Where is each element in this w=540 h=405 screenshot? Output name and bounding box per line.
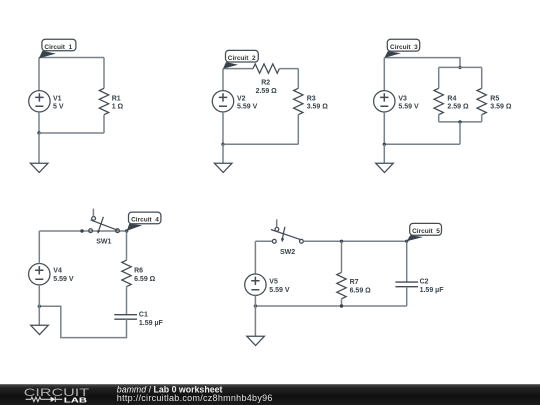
wire right circuit 4 bbox=[126, 231, 128, 260]
wire left circuit 1 bbox=[38, 58, 40, 91]
svg-text:R6: R6 bbox=[134, 268, 143, 275]
node label Circuit_1 bbox=[39, 39, 76, 58]
wire below V4 bbox=[38, 285, 40, 306]
node junction circuit 2 bbox=[221, 143, 224, 146]
svg-text:Circuit_5: Circuit_5 bbox=[412, 228, 440, 235]
svg-text:5.59 V: 5.59 V bbox=[269, 287, 290, 294]
resistor R1 bbox=[99, 58, 123, 134]
wire bottom circuit 1 bbox=[39, 132, 104, 134]
wire top-right circuit 5 bbox=[304, 240, 407, 242]
wire left circuit 5 bbox=[254, 241, 256, 274]
node junction R7 bottom bbox=[340, 304, 343, 307]
svg-text:1 Ω: 1 Ω bbox=[112, 104, 124, 111]
resistor R7 bbox=[337, 241, 371, 306]
svg-text:3.59 Ω: 3.59 Ω bbox=[307, 104, 329, 111]
wire top circuit 3 bbox=[384, 58, 460, 68]
wire below V5 bbox=[254, 295, 256, 306]
ground circuit 2 bbox=[214, 144, 232, 172]
wire below V1 bbox=[38, 112, 40, 133]
switch SW1 bbox=[89, 209, 120, 246]
node label Circuit_4 bbox=[127, 212, 161, 231]
node junction circuit 3 top bbox=[458, 66, 461, 69]
node label Circuit_3 bbox=[384, 39, 419, 58]
voltage source V3 bbox=[374, 91, 419, 112]
wire below V3 bbox=[383, 112, 385, 144]
svg-text:R5: R5 bbox=[490, 95, 499, 102]
resistor R6 bbox=[122, 260, 156, 314]
wire top circuit 1 bbox=[39, 57, 104, 59]
svg-text:V3: V3 bbox=[398, 95, 407, 102]
svg-text:V5: V5 bbox=[269, 279, 278, 286]
ground circuit 5 bbox=[247, 306, 265, 346]
svg-text:V2: V2 bbox=[237, 95, 246, 102]
wire parallel bottom bar bbox=[439, 121, 482, 123]
wire bottom circuit 3 bbox=[384, 143, 460, 145]
wire above V4 bbox=[38, 231, 40, 264]
svg-text:Circuit_1: Circuit_1 bbox=[44, 44, 72, 51]
wire bottom circuit 4 bbox=[39, 306, 126, 337]
svg-text:SW1: SW1 bbox=[96, 238, 111, 245]
wire top-left circuit 2 bbox=[223, 68, 253, 70]
wire bottom circuit 5 bbox=[255, 305, 406, 307]
voltage source V5 bbox=[245, 274, 290, 295]
svg-text:3.59 Ω: 3.59 Ω bbox=[490, 104, 512, 111]
svg-text:2.59 Ω: 2.59 Ω bbox=[256, 88, 278, 95]
resistor R2 bbox=[253, 64, 279, 95]
wire below V2 bbox=[222, 112, 224, 144]
wire stem parallel to bottom bbox=[459, 122, 461, 144]
svg-text:1.59 µF: 1.59 µF bbox=[139, 320, 164, 327]
svg-text:R2: R2 bbox=[261, 80, 270, 87]
node junction circuit 5 bottom left bbox=[254, 304, 257, 307]
capacitor C1 bbox=[114, 311, 163, 327]
svg-text:5 V: 5 V bbox=[53, 104, 64, 111]
svg-text:R7: R7 bbox=[350, 279, 359, 286]
svg-text:http://circuitlab.com/cz8hmnhb: http://circuitlab.com/cz8hmnhb4by96 bbox=[117, 393, 273, 403]
svg-text:R1: R1 bbox=[112, 95, 121, 102]
resistor R3 bbox=[294, 69, 329, 145]
svg-text:LAB: LAB bbox=[64, 395, 87, 404]
svg-text:Circuit_4: Circuit_4 bbox=[131, 217, 159, 224]
capacitor C2 bbox=[395, 241, 444, 306]
svg-text:R4: R4 bbox=[447, 95, 456, 102]
node label Circuit_2 bbox=[223, 50, 258, 68]
logo resistor zigzag bbox=[26, 397, 51, 401]
wire bottom circuit 2 bbox=[223, 143, 298, 145]
voltage source V2 bbox=[212, 91, 257, 112]
node junction circuit 4 right bbox=[125, 229, 128, 232]
svg-text:Circuit_3: Circuit_3 bbox=[390, 44, 418, 51]
wire left circuit 3 bbox=[383, 58, 385, 91]
svg-text:5.59 V: 5.59 V bbox=[398, 104, 419, 111]
svg-text:V1: V1 bbox=[53, 95, 62, 102]
svg-text:6.59 Ω: 6.59 Ω bbox=[350, 288, 372, 295]
svg-text:5.59 V: 5.59 V bbox=[237, 104, 258, 111]
ground circuit 3 bbox=[376, 144, 394, 172]
resistor R5 bbox=[477, 67, 512, 122]
logo diode bbox=[51, 397, 56, 402]
voltage source V1 bbox=[29, 91, 64, 112]
switch SW2 bbox=[271, 219, 303, 256]
wire left circuit 2 bbox=[222, 69, 224, 91]
svg-text:V4: V4 bbox=[53, 268, 62, 275]
node junction R7 top bbox=[340, 240, 343, 243]
svg-text:1.59 µF: 1.59 µF bbox=[420, 287, 445, 294]
ground circuit 4 bbox=[31, 306, 49, 334]
svg-text:C2: C2 bbox=[420, 278, 429, 285]
svg-text:R3: R3 bbox=[307, 95, 316, 102]
svg-text:SW2: SW2 bbox=[280, 249, 295, 256]
node junction before SW1 bbox=[80, 229, 83, 232]
node junction circuit 3 bottom bbox=[383, 143, 386, 146]
node label Circuit_5 bbox=[407, 223, 442, 241]
svg-text:5.59 V: 5.59 V bbox=[53, 276, 74, 283]
wire top circuit 4 bbox=[39, 230, 126, 232]
svg-text:C1: C1 bbox=[139, 311, 148, 318]
node junction circuit 1 bbox=[37, 131, 40, 134]
node junction circuit 5 right bbox=[405, 240, 408, 243]
wire top-left circuit 5 bbox=[255, 240, 272, 242]
node junction parallel bottom bbox=[458, 120, 461, 123]
wire top-right circuit 2 bbox=[279, 68, 298, 70]
voltage source V4 bbox=[29, 264, 74, 285]
svg-text:Circuit_2: Circuit_2 bbox=[228, 55, 256, 62]
node junction circuit 4 bottom bbox=[38, 305, 41, 308]
svg-text:6.59 Ω: 6.59 Ω bbox=[134, 276, 156, 283]
resistor R4 bbox=[434, 67, 469, 122]
wire parallel top bar bbox=[439, 66, 482, 68]
ground circuit 1 bbox=[30, 133, 48, 173]
svg-text:2.59 Ω: 2.59 Ω bbox=[447, 104, 469, 111]
